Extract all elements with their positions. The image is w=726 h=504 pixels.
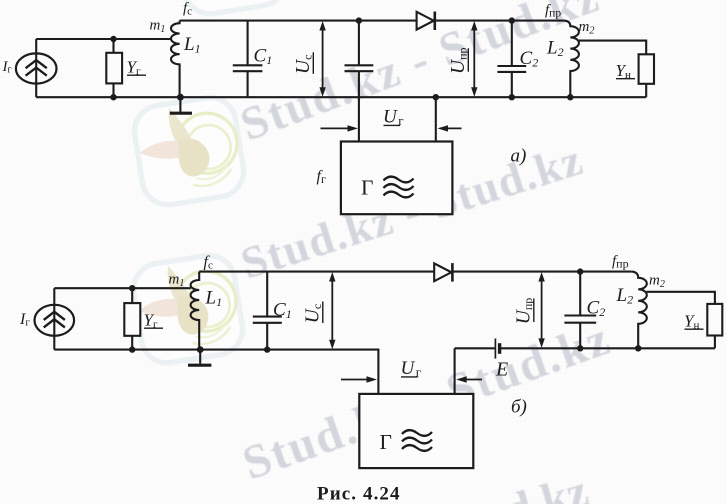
resistor Yг wires (b) (131, 288, 133, 349)
wire: generator right lead (b) (454, 348, 456, 394)
inductor L2 (b) (631, 272, 646, 349)
label Uc rotated (a) (293, 52, 315, 74)
node: Yг bottom (b) (129, 346, 135, 352)
node: generator right lead (433, 94, 439, 100)
battery E plates (455, 347, 495, 349)
inductor L1 (b) (191, 272, 200, 350)
current source chevron arrows (b) (44, 312, 65, 320)
current source chevron arrows (26, 60, 47, 68)
measurement arrows (b) (329, 272, 545, 383)
capacitor C1 (b) (253, 272, 282, 350)
node: C1 bottom (b) (264, 346, 270, 352)
node: L2 bottom (b) (635, 345, 641, 351)
arrow Uг left (b) (341, 379, 370, 381)
wire: battery to C2/L2 bottom rail (b) (500, 347, 638, 349)
generator box (b) (359, 394, 473, 468)
node: Yг top (110, 36, 116, 42)
logo stamp 1 (131, 94, 247, 209)
node: L2 bottom (567, 94, 573, 100)
inductor L2 (a) (564, 21, 579, 98)
resistor Yг (106, 53, 122, 84)
capacitor C1 (a) (233, 21, 263, 98)
wire: top rail fc, left of diode (b) (199, 271, 434, 273)
ground (a) (179, 97, 181, 112)
node: C2 top (509, 17, 515, 23)
current source Iг ellipse (16, 53, 57, 83)
wire: m2 tap to load (578, 41, 646, 55)
svg-text:а): а) (511, 146, 527, 167)
inductor L1 (a) (171, 21, 180, 98)
labels (b) (19, 254, 704, 504)
label Uпр rotated (a) (448, 47, 470, 74)
wire: top rail, diode cathode to L2 (435, 20, 564, 22)
wire: load to bottom rail (645, 84, 647, 97)
capacitor C2 (a) (497, 21, 526, 98)
node: C2 top (b) (577, 268, 583, 274)
junction dots (a) (110, 17, 573, 100)
arrow Uc (a) (322, 27, 324, 91)
wire: top rail fc, left of diode (180, 20, 417, 22)
resistor Yг wires (112, 39, 114, 97)
node: ground junction (b) (197, 346, 204, 353)
node: mid-cap top (356, 17, 362, 23)
diode VD (a) (417, 12, 434, 30)
arrow Uc (b) (331, 278, 333, 344)
wire: left top rail (m1 tap) (36, 38, 171, 40)
node: Yг top (b) (129, 285, 135, 291)
wire: left top rail m1 tap (b) (54, 287, 191, 289)
resistor Yг (b) (124, 303, 140, 336)
generator box (a) (341, 142, 453, 215)
logo stamp top partial (173, 0, 289, 18)
arrow Uг right (b) (463, 379, 482, 381)
load resistor Yн (a) (639, 54, 654, 84)
wire: bottom rail (36, 96, 646, 98)
labels (a) (2, 1, 636, 200)
watermark layer (130, 0, 618, 504)
wire: top rail, diode to L2 (b) (452, 271, 631, 273)
arrow Uг right (a) (444, 127, 462, 129)
generator wave symbol (a) (384, 177, 414, 198)
junction dots (b) (129, 268, 641, 353)
node: ground junction (177, 94, 184, 101)
svg-text:Г: Г (361, 176, 373, 200)
wire: generator right lead (435, 97, 437, 141)
svg-text:Рис. 4.24: Рис. 4.24 (317, 484, 401, 504)
wire: m2 tap to load (b) (646, 292, 715, 304)
node: Yг bottom (110, 94, 116, 100)
diode VD (b) (434, 263, 451, 281)
svg-text:fпр: fпр (612, 254, 629, 271)
arrow Uпр (b) (541, 278, 543, 343)
logo stamp 2 (130, 252, 246, 367)
node: C2 bottom (509, 94, 515, 100)
svg-text:б): б) (511, 397, 527, 418)
arrow Uпр (a) (473, 27, 475, 91)
node: C2 bottom (b) (577, 345, 583, 351)
arrow Uг left (a) (321, 127, 352, 129)
label Uпр rotated (b) (514, 298, 536, 325)
wire: load to bottom rail (b) (638, 336, 715, 349)
measurement arrows (a) (319, 21, 477, 132)
current source Iг ellipse (b) (35, 305, 75, 336)
load resistor Yн (b) (707, 304, 722, 336)
middle capacitor (heterodyne coupling) (345, 21, 374, 142)
wire: current source column (35, 39, 37, 97)
wire: bottom rail left (b) (54, 350, 378, 394)
wire: current source column (b) (53, 288, 55, 349)
label Uc rotated (b) (303, 302, 325, 324)
svg-text:Г: Г (380, 430, 392, 454)
ground (b) (199, 350, 201, 364)
generator wave symbol (b) (402, 430, 432, 451)
capacitor C2 (b) (564, 272, 596, 349)
svg-text:E: E (495, 359, 508, 381)
